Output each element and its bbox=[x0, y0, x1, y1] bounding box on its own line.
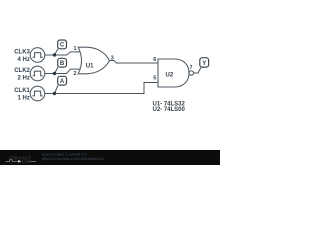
or-gate U1 bbox=[78, 47, 109, 74]
svg-text:LAB: LAB bbox=[22, 159, 32, 164]
svg-text:B: B bbox=[60, 61, 65, 67]
svg-text:CLK1: CLK1 bbox=[14, 88, 30, 94]
clock source CLK3 bbox=[30, 48, 45, 63]
node flag B bbox=[58, 58, 67, 67]
svg-text:Y: Y bbox=[202, 61, 206, 67]
svg-text:2: 2 bbox=[73, 71, 76, 77]
svg-text:1 Hz: 1 Hz bbox=[18, 95, 30, 101]
svg-text:open9 / Bax 1 Lab#8 C3: open9 / Bax 1 Lab#8 C3 bbox=[42, 151, 87, 156]
junction dot node A bbox=[53, 92, 56, 95]
node flag C bbox=[58, 40, 67, 49]
CircuitLab logo wire bbox=[6, 160, 37, 162]
svg-text:2 Hz: 2 Hz bbox=[18, 75, 30, 81]
junction dot node C bbox=[53, 53, 56, 56]
wire CLK1 to U2 pin 5 bbox=[45, 83, 158, 94]
svg-text:3: 3 bbox=[111, 55, 114, 61]
wire U2 pin 7 to node Y bbox=[194, 67, 202, 73]
CircuitLab logo arrow bbox=[18, 160, 21, 163]
svg-text:U1: U1 bbox=[86, 63, 94, 69]
junction dot node B bbox=[53, 72, 56, 75]
svg-text:CLK2: CLK2 bbox=[14, 68, 30, 74]
clock source CLK1 bbox=[30, 86, 45, 101]
svg-text:C: C bbox=[60, 43, 65, 49]
svg-text:CLK3: CLK3 bbox=[14, 49, 30, 55]
nand-gate U2 bbox=[158, 59, 194, 87]
wire leader node C bbox=[55, 49, 59, 55]
svg-text:1: 1 bbox=[73, 46, 76, 52]
wire CLK2 to U1 pin 2 bbox=[45, 69, 80, 73]
wire leader node A bbox=[55, 85, 59, 93]
wire U1 pin 3 to U2 pin 6 bbox=[110, 61, 159, 64]
footer bar bbox=[0, 150, 220, 165]
svg-text:U2: U2 bbox=[166, 72, 174, 78]
svg-text:http://circuitlab.com/c9k1kf4d: http://circuitlab.com/c9k1kf4dp47n bbox=[42, 157, 105, 161]
svg-text:6: 6 bbox=[153, 57, 156, 63]
svg-text:4 Hz: 4 Hz bbox=[18, 57, 30, 63]
wire leader node B bbox=[55, 67, 59, 73]
svg-text:A: A bbox=[60, 79, 65, 85]
wire CLK3 to U1 pin 1 bbox=[45, 52, 80, 55]
node flag Y bbox=[200, 58, 209, 67]
svg-text:5: 5 bbox=[153, 75, 156, 81]
node flag A bbox=[58, 76, 67, 85]
svg-text:7: 7 bbox=[189, 65, 192, 71]
clock source CLK2 bbox=[30, 66, 45, 81]
svg-text:U2- 74LS00: U2- 74LS00 bbox=[153, 107, 186, 113]
